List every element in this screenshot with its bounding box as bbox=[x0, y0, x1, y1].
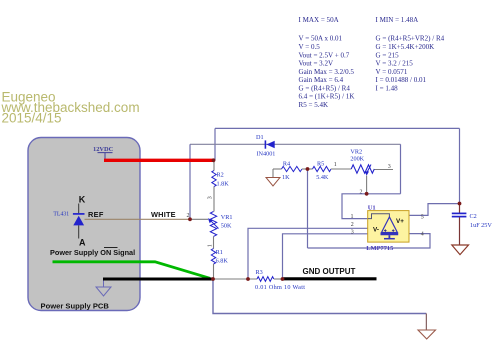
svg-text:Vout = 2.5V + 0.7: Vout = 2.5V + 0.7 bbox=[299, 51, 350, 59]
svg-text:G = (R4+R5) / R4: G = (R4+R5) / R4 bbox=[299, 84, 351, 92]
svg-text:R4: R4 bbox=[283, 160, 290, 167]
svg-text:R3: R3 bbox=[256, 269, 263, 276]
svg-text:1: 1 bbox=[351, 214, 354, 220]
calculation notes column 2 bbox=[376, 16, 445, 92]
svg-text:6.8K: 6.8K bbox=[216, 257, 229, 264]
node Power Supply ON Signal label bbox=[50, 248, 135, 258]
svg-text:R5: R5 bbox=[317, 160, 324, 167]
potentiometer VR1 bbox=[208, 212, 233, 237]
power supply PCB box bbox=[28, 138, 140, 311]
svg-text:R2: R2 bbox=[217, 171, 224, 178]
junction dots bbox=[188, 158, 461, 280]
resistor R1 bbox=[211, 249, 228, 265]
svg-text:5: 5 bbox=[421, 214, 424, 220]
svg-text:G = (R4+R5+VR2) / R4: G = (R4+R5+VR2) / R4 bbox=[376, 35, 445, 43]
wire REF / WHITE bbox=[85, 218, 191, 220]
svg-text:1K: 1K bbox=[282, 174, 290, 181]
resistor R2 bbox=[212, 162, 229, 187]
wire PCB ground black bbox=[103, 278, 213, 281]
svg-text:Power Supply ON Signal: Power Supply ON Signal bbox=[50, 248, 135, 257]
wire op-amp pin5 bbox=[409, 204, 460, 216]
wire right vertical bbox=[459, 128, 461, 203]
svg-text:12VDC: 12VDC bbox=[93, 146, 114, 153]
potentiometer VR2 bbox=[350, 149, 374, 176]
svg-text:200K: 200K bbox=[350, 155, 364, 162]
wire bottom rail bbox=[213, 279, 426, 314]
svg-text:WHITE: WHITE bbox=[151, 210, 176, 219]
calculation notes column 1 bbox=[299, 16, 356, 109]
svg-text:V+: V+ bbox=[396, 218, 404, 225]
svg-text:LMP7715: LMP7715 bbox=[366, 245, 393, 252]
ground C2 bbox=[452, 245, 469, 255]
wire stub VR1 to R1 bbox=[213, 237, 215, 249]
wire top rail bbox=[215, 127, 460, 129]
wire left rail upper bbox=[214, 128, 216, 160]
wire wiper stub VR1 bbox=[190, 218, 208, 220]
svg-text:4: 4 bbox=[421, 231, 424, 237]
svg-text:1uF 25V: 1uF 25V bbox=[470, 222, 492, 229]
resistor R5 bbox=[308, 160, 352, 181]
svg-text:I MIN = 1.48A: I MIN = 1.48A bbox=[376, 16, 420, 24]
svg-text:K: K bbox=[79, 195, 86, 205]
svg-text:50K: 50K bbox=[221, 223, 232, 230]
svg-text:V = 50A x 0.01: V = 50A x 0.01 bbox=[299, 35, 343, 43]
svg-text:TL431: TL431 bbox=[53, 212, 69, 218]
svg-text:Gain Max = 6.4: Gain Max = 6.4 bbox=[299, 76, 344, 84]
svg-text:2: 2 bbox=[351, 222, 354, 228]
svg-text:6.4 = (1K+R5) / 1K: 6.4 = (1K+R5) / 1K bbox=[299, 93, 356, 101]
svg-text:R1: R1 bbox=[216, 249, 223, 256]
svg-text:2015/4/15: 2015/4/15 bbox=[2, 110, 62, 125]
wire op-amp pin3 bbox=[283, 234, 368, 279]
svg-text:Gain Max = 3.2/0.5: Gain Max = 3.2/0.5 bbox=[299, 68, 355, 76]
resistor R4 bbox=[273, 160, 308, 181]
wire feedback right vertical bbox=[400, 144, 402, 194]
ground bottom right bbox=[418, 330, 436, 339]
wire ground stub bottom right bbox=[425, 314, 427, 331]
wire R4R5 junction vertical bbox=[307, 169, 309, 248]
title block text bbox=[1, 90, 140, 126]
svg-text:D1: D1 bbox=[256, 134, 264, 141]
resistor R3 shunt bbox=[255, 269, 305, 291]
wire VR2 wiper down bbox=[366, 176, 368, 194]
svg-text:Vout = 3.2V: Vout = 3.2V bbox=[299, 60, 334, 68]
svg-text:C2: C2 bbox=[470, 213, 477, 220]
wire feedback bottom bbox=[342, 194, 401, 219]
wire stub R2 to VR1 bbox=[213, 187, 215, 212]
svg-text:1: 1 bbox=[334, 162, 337, 168]
svg-text:3: 3 bbox=[207, 196, 213, 199]
wire op-amp pin2 bbox=[248, 228, 368, 279]
svg-text:IN4001: IN4001 bbox=[257, 150, 276, 157]
svg-text:Power Supply PCB: Power Supply PCB bbox=[41, 301, 110, 310]
svg-text:3: 3 bbox=[351, 230, 354, 236]
wire GND OUTPUT black bbox=[283, 277, 377, 280]
op-amp U1 bbox=[366, 204, 409, 251]
svg-text:G = 1K+5.4K+200K: G = 1K+5.4K+200K bbox=[376, 43, 436, 51]
svg-text:0.01 Ohm 10 Watt: 0.01 Ohm 10 Watt bbox=[255, 284, 305, 291]
transistor TL431 bbox=[53, 204, 84, 239]
svg-text:V = 3.2 / 215: V = 3.2 / 215 bbox=[376, 60, 414, 68]
wire 12VDC red bbox=[104, 159, 214, 162]
wire VR2 pin3 stub bbox=[375, 169, 394, 171]
svg-text:R5 = 5.4K: R5 = 5.4K bbox=[299, 101, 330, 109]
node 12VDC label bbox=[93, 146, 114, 160]
svg-text:I MAX = 50A: I MAX = 50A bbox=[299, 16, 340, 24]
svg-text:V = 0.0571: V = 0.0571 bbox=[376, 68, 408, 76]
svg-text:2: 2 bbox=[360, 190, 363, 196]
svg-text:G = 215: G = 215 bbox=[376, 51, 400, 59]
svg-text:VR1: VR1 bbox=[221, 214, 233, 221]
svg-text:5.4K: 5.4K bbox=[316, 174, 329, 181]
svg-text:I = 0.01488 / 0.01: I = 0.01488 / 0.01 bbox=[376, 76, 427, 84]
wire R3 left link bbox=[213, 278, 257, 280]
wire feedback left vertical bbox=[189, 144, 191, 219]
svg-text:1: 1 bbox=[207, 244, 213, 247]
svg-text:V-: V- bbox=[373, 227, 379, 234]
ground R4 bbox=[266, 169, 280, 186]
svg-text:1.8K: 1.8K bbox=[217, 180, 230, 187]
svg-text:A: A bbox=[79, 238, 86, 248]
ground PCB bbox=[96, 281, 111, 297]
svg-text:GND OUTPUT: GND OUTPUT bbox=[303, 267, 356, 276]
diode D1 bbox=[256, 134, 275, 158]
wire op-amp pin4 bbox=[308, 234, 431, 248]
svg-text:V = 0.5: V = 0.5 bbox=[299, 43, 321, 51]
wire stub R1 down bbox=[213, 264, 215, 279]
svg-text:REF: REF bbox=[88, 210, 104, 219]
wire ON signal green bbox=[53, 262, 211, 279]
svg-text:I = 1.48: I = 1.48 bbox=[376, 84, 399, 92]
wire diode line bbox=[190, 143, 401, 145]
capacitor C2 bbox=[452, 204, 493, 246]
